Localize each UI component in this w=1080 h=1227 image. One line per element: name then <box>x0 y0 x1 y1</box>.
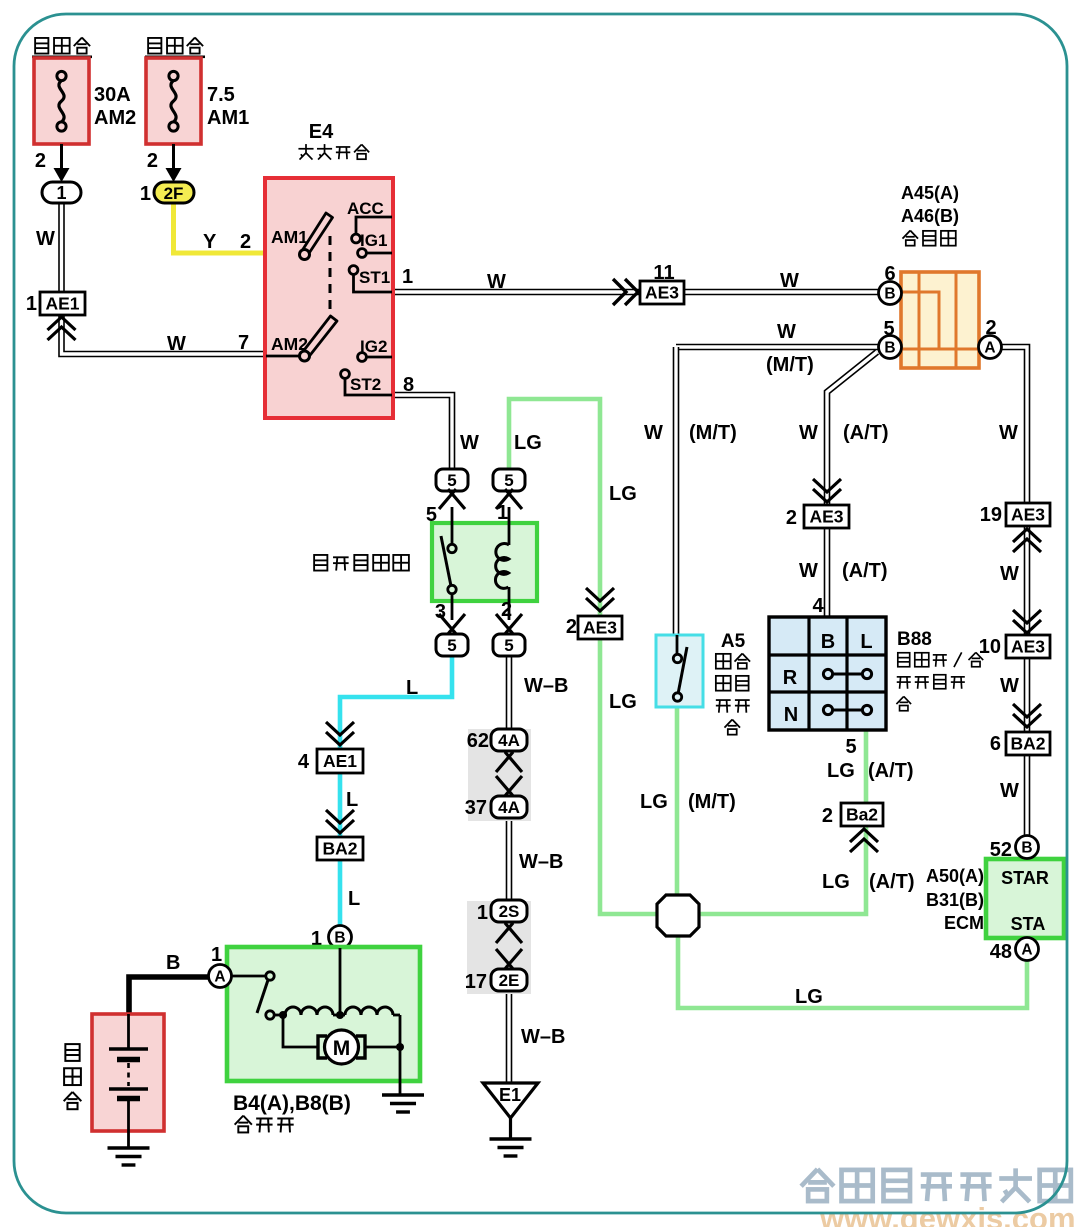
svg-text:B: B <box>884 340 895 357</box>
shield 4A pair <box>468 729 531 821</box>
svg-text:10: 10 <box>979 636 1001 658</box>
svg-text:ST2: ST2 <box>350 375 381 394</box>
svg-text:B31(B): B31(B) <box>926 890 984 910</box>
svg-text:BA2: BA2 <box>1010 734 1045 754</box>
svg-text:52: 52 <box>990 839 1012 861</box>
wire W M/T branch down to clutch switch A5 <box>673 347 680 637</box>
svg-text:1: 1 <box>140 183 151 205</box>
svg-text:A50(A): A50(A) <box>926 866 984 886</box>
svg-text:AE1: AE1 <box>323 751 357 771</box>
connector AE3 pin2 (A/T) <box>813 479 841 492</box>
svg-text:2: 2 <box>240 231 251 253</box>
wire fuse AM1 pin2 arrow <box>172 144 175 172</box>
svg-text:1: 1 <box>56 183 66 203</box>
wire W fuse AM2 to AE1 <box>58 201 65 292</box>
svg-text:B: B <box>166 952 180 974</box>
svg-text:W: W <box>36 228 55 250</box>
svg-text:L: L <box>860 631 872 653</box>
svg-text:2: 2 <box>786 507 797 529</box>
svg-text:ST1: ST1 <box>359 268 390 287</box>
wire L relay pin3 to AE1/BA2 to starter B <box>340 654 452 939</box>
connector BA2 (L wire) <box>326 810 354 823</box>
svg-text:W–B: W–B <box>519 851 563 873</box>
wire W-B relay pin2 to 4A <box>506 654 513 731</box>
wire LG clutch switch to junction <box>675 705 680 910</box>
svg-text:(A/T): (A/T) <box>869 871 915 893</box>
connector AE3 pin11 <box>613 279 626 305</box>
svg-text:2S: 2S <box>499 902 520 921</box>
shield 2S/2E pair <box>467 901 531 994</box>
svg-text:AE3: AE3 <box>809 507 843 527</box>
svg-text:6: 6 <box>990 733 1001 755</box>
wire W connector 5B to M/T branch <box>676 344 879 351</box>
ECM A50(A) B31(B) <box>926 859 1064 938</box>
fuse 7.5 AM1 <box>145 38 249 144</box>
starter relay <box>314 507 537 620</box>
svg-text:1: 1 <box>497 502 508 524</box>
ground starter <box>382 1093 424 1096</box>
wire W E4 ST1 pin1 to AE3 <box>392 289 640 296</box>
field coil 2 <box>345 1007 393 1015</box>
svg-text:(A/T): (A/T) <box>843 422 889 444</box>
ground E1 <box>483 1083 538 1118</box>
svg-text:37: 37 <box>465 797 487 819</box>
switch lever AM2 <box>303 316 337 357</box>
wire LG junction to ECM STA 48A <box>678 930 1027 1008</box>
ground battery <box>108 1146 150 1149</box>
connector AE3 pin10 <box>1013 610 1041 623</box>
svg-text:STAR: STAR <box>1001 868 1049 888</box>
starter solenoid switch <box>231 975 266 978</box>
svg-text:E4: E4 <box>309 121 334 143</box>
wire W connector 2A to ECM 52B <box>1001 347 1027 838</box>
svg-text:A: A <box>1021 942 1032 959</box>
svg-text:W: W <box>780 270 799 292</box>
svg-text:B4(A),B8(B): B4(A),B8(B) <box>233 1092 351 1115</box>
connector 5 (relay pin2 bottom) <box>496 614 514 635</box>
svg-text:LG: LG <box>822 871 850 893</box>
svg-text:1: 1 <box>402 266 413 288</box>
svg-text:A: A <box>984 340 995 357</box>
svg-text:W: W <box>167 333 186 355</box>
svg-text:LG: LG <box>514 432 542 454</box>
svg-text:W–B: W–B <box>521 1026 565 1048</box>
svg-text:5: 5 <box>447 471 456 490</box>
connector 4A pin37 <box>496 776 514 797</box>
svg-text:AM1: AM1 <box>207 107 249 129</box>
wire Y from fuse AM1 2F to E4 pin2 <box>174 200 267 253</box>
wire W A/T branch from 5B via AE3 2 to B88 pin4 <box>827 352 877 619</box>
relay coil <box>508 507 511 545</box>
svg-text:A: A <box>214 969 225 986</box>
svg-text:L: L <box>348 888 360 910</box>
svg-text:AM2: AM2 <box>94 107 136 129</box>
connector oval 2F <box>154 182 194 203</box>
wire fuse AM2 pin2 arrow <box>60 144 63 172</box>
svg-text:2: 2 <box>566 616 577 638</box>
svg-text:17: 17 <box>465 971 487 993</box>
svg-text:LG: LG <box>609 483 637 505</box>
battery 蓄电池 <box>64 1014 164 1147</box>
wire LG relay pin1 branch to junction <box>509 399 666 914</box>
svg-text:48: 48 <box>990 941 1012 963</box>
connector oval 1 <box>42 182 81 203</box>
svg-text:STA: STA <box>1011 914 1046 934</box>
svg-text:(M/T): (M/T) <box>766 354 814 376</box>
svg-text:M: M <box>333 1037 351 1060</box>
svg-text:AE3: AE3 <box>1011 505 1045 525</box>
svg-text:W: W <box>487 271 506 293</box>
svg-text:B88: B88 <box>897 629 932 650</box>
connector A45(A) A46(B) <box>901 183 979 368</box>
svg-text:2E: 2E <box>499 971 520 990</box>
svg-text:E1: E1 <box>499 1085 521 1105</box>
svg-text:2F: 2F <box>164 184 184 203</box>
relay switch <box>441 536 451 586</box>
svg-text:2: 2 <box>822 805 833 827</box>
connector 2E pin17 <box>496 949 514 970</box>
svg-text:4A: 4A <box>498 798 520 817</box>
wire LG B88 pin5 via Ba2 to junction <box>690 729 866 914</box>
motor M <box>318 1036 327 1058</box>
svg-text:AE3: AE3 <box>1011 637 1045 657</box>
svg-text:IG1: IG1 <box>360 231 387 250</box>
svg-text:LG: LG <box>795 986 823 1008</box>
svg-text:7: 7 <box>238 332 249 354</box>
dashed link <box>329 236 332 316</box>
ignition switch E4 <box>265 121 393 418</box>
svg-text:4: 4 <box>298 751 310 773</box>
connector AE1 pin4 <box>326 722 354 735</box>
switch lever AM1 <box>303 213 333 254</box>
svg-text:ACC: ACC <box>347 199 384 218</box>
svg-text:W: W <box>1000 563 1019 585</box>
svg-text:7.5: 7.5 <box>207 84 235 106</box>
svg-text:B: B <box>884 286 895 303</box>
connector BA2 pin6 <box>1013 704 1041 717</box>
svg-text:2: 2 <box>147 150 158 172</box>
wire W-B 4A to 2S <box>506 818 513 902</box>
svg-text:4: 4 <box>812 595 824 617</box>
svg-text:1: 1 <box>211 944 222 966</box>
wire W AE3 11 to connector 6B <box>684 289 879 296</box>
svg-text:1: 1 <box>477 902 488 924</box>
wire W AE1 to E4 AM2 pin7 <box>62 314 267 354</box>
connector 5 (relay pin1 top) <box>493 469 525 491</box>
svg-text:B: B <box>821 631 835 653</box>
svg-text:5: 5 <box>426 504 437 526</box>
wire W E4 ST2 pin8 to relay conn <box>392 395 452 471</box>
svg-text:W: W <box>799 422 818 444</box>
svg-text:LG: LG <box>609 691 637 713</box>
svg-text:Y: Y <box>203 231 217 253</box>
svg-text:W: W <box>644 422 663 444</box>
svg-text:W–B: W–B <box>524 675 568 697</box>
starter B4(A),B8(B) <box>166 944 420 1094</box>
svg-text:BA2: BA2 <box>322 839 357 859</box>
connector 5 (relay pin3 bottom) <box>439 614 457 635</box>
svg-text:5: 5 <box>504 636 513 655</box>
svg-text:5: 5 <box>504 471 513 490</box>
svg-text:L: L <box>346 789 358 811</box>
svg-text:AE3: AE3 <box>583 618 617 638</box>
svg-text:L: L <box>406 677 418 699</box>
svg-text:(M/T): (M/T) <box>689 422 737 444</box>
wire B thick battery to starter A <box>129 977 210 1013</box>
svg-text:5: 5 <box>845 736 856 758</box>
svg-text:N: N <box>784 704 798 726</box>
svg-text:W: W <box>799 560 818 582</box>
svg-text:Ba2: Ba2 <box>846 805 878 825</box>
svg-text:AE3: AE3 <box>645 283 679 303</box>
svg-text:AE1: AE1 <box>45 294 79 314</box>
svg-text:8: 8 <box>403 374 414 396</box>
svg-text:(M/T): (M/T) <box>688 791 736 813</box>
svg-text:(A/T): (A/T) <box>868 760 914 782</box>
svg-text:LG: LG <box>827 760 855 782</box>
junction node octagon <box>657 895 699 936</box>
svg-text:R: R <box>783 667 798 689</box>
fuse 30A AM2 <box>32 38 136 144</box>
svg-text:19: 19 <box>980 504 1002 526</box>
svg-text:5: 5 <box>447 636 456 655</box>
svg-text:W: W <box>777 321 796 343</box>
clutch start switch A5 <box>656 635 703 707</box>
svg-text:B: B <box>334 930 345 947</box>
wire W-B 2E to E1 <box>506 991 513 1083</box>
svg-text:LG: LG <box>640 791 668 813</box>
svg-text:2: 2 <box>35 150 46 172</box>
field coil 1 <box>285 1007 333 1015</box>
svg-text:W: W <box>460 432 479 454</box>
svg-text:2: 2 <box>501 599 512 621</box>
svg-text:1: 1 <box>26 293 37 315</box>
svg-text:W: W <box>1000 780 1019 802</box>
svg-text:W: W <box>1000 675 1019 697</box>
svg-text:W: W <box>999 422 1018 444</box>
svg-text:62: 62 <box>467 730 489 752</box>
connector 5 (relay pin5 top) <box>436 469 468 491</box>
svg-text:A45(A): A45(A) <box>901 183 959 203</box>
svg-text:A46(B): A46(B) <box>901 206 959 226</box>
svg-text:4A: 4A <box>498 731 520 750</box>
svg-text:ECM: ECM <box>944 913 984 933</box>
pin 1A starter <box>209 965 232 988</box>
connector AE3 pin2 (LG) <box>586 588 614 601</box>
svg-text:30A: 30A <box>94 84 131 106</box>
svg-text:B: B <box>1021 840 1032 857</box>
svg-text:A5: A5 <box>721 631 746 652</box>
svg-text:AM1: AM1 <box>271 227 308 247</box>
svg-text:(A/T): (A/T) <box>842 560 888 582</box>
watermark line 1 <box>801 1169 834 1201</box>
park/neutral position switch B88 <box>769 617 886 730</box>
